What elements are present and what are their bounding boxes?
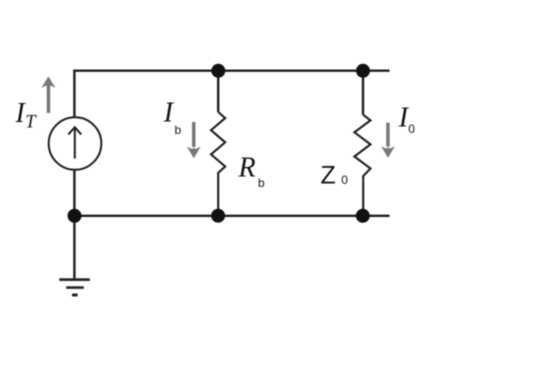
svg-text:R: R: [238, 153, 256, 184]
svg-text:0: 0: [341, 173, 348, 187]
svg-text:b: b: [175, 123, 182, 137]
svg-text:T: T: [25, 113, 37, 133]
svg-text:b: b: [258, 176, 265, 190]
svg-text:Z: Z: [321, 161, 336, 189]
svg-text:0: 0: [408, 122, 415, 136]
svg-text:I: I: [163, 98, 175, 129]
